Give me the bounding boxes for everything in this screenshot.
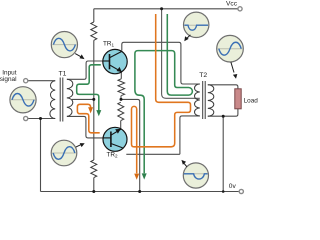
T2 secondary winding [208, 85, 214, 116]
wire load bottom [208, 109, 238, 116]
wire input bottom lead [28, 118, 55, 120]
resistor Rb TR2 emitter [118, 102, 124, 120]
T2 core [203, 81, 206, 119]
wire input ground drop [40, 119, 42, 192]
terminal 0v [239, 189, 243, 193]
wire 0v rail [41, 191, 239, 193]
svg-text:TR2: TR2 [107, 152, 119, 159]
wire Vcc rail [94, 8, 238, 10]
resistor R1 bias upper [91, 22, 97, 40]
orange arrow head right [134, 174, 139, 180]
transistor TR2 [103, 127, 127, 151]
T1 primary winding [50, 81, 55, 119]
T2 primary winding [195, 84, 200, 116]
wire input top lead [28, 80, 55, 82]
svg-text:signal: signal [0, 76, 17, 83]
wire bias chain vertical R1/R2 line [93, 9, 95, 192]
svg-text:Vcc: Vcc [226, 1, 238, 8]
wire TR2 collector to T2 primary bottom [126, 116, 200, 154]
resistor Ra TR1 emitter [118, 79, 125, 96]
wire output midpoint to 0v [121, 99, 140, 191]
wire Rb to TR2 emitter [120, 121, 122, 129]
green arrow head right [142, 173, 147, 179]
wire T1 secondary bottom to TR2 base [67, 116, 103, 137]
svg-text:Load: Load [244, 98, 259, 105]
svg-text:T1: T1 [59, 71, 67, 78]
waveform circle C3 (after T1 bottom, inverted) [51, 140, 84, 166]
waveform circle C2 (input signal) [10, 87, 36, 113]
svg-text:0v: 0v [229, 183, 237, 190]
waveform circle C5 (restored output full wave) [217, 35, 244, 78]
T1 secondary winding [67, 79, 73, 116]
wire Vcc to T2 centre tap [162, 9, 200, 99]
wire TR1 emitter to resistor Ra [120, 72, 122, 79]
wire TR1 collector to T2 primary top [122, 42, 200, 84]
terminal Vcc [238, 7, 242, 11]
wire Ra to junction [120, 96, 122, 100]
wire load branch to 0v rail [222, 116, 224, 191]
svg-text:T2: T2 [199, 72, 207, 79]
waveform circle C4 (TR1 half cycle) [184, 12, 209, 41]
wire T1 centre tap [72, 98, 94, 100]
resistor R2 bias lower [91, 160, 97, 178]
waveform circle C6 (TR2 half cycle) [181, 160, 208, 188]
T1 core [60, 78, 63, 122]
wire T1 secondary top to TR1 base [67, 61, 103, 79]
orange arrow head left [88, 107, 93, 113]
svg-text:TR1: TR1 [103, 41, 115, 48]
green arrow head left [96, 110, 101, 116]
wire T2 secondary top to load [208, 85, 238, 89]
